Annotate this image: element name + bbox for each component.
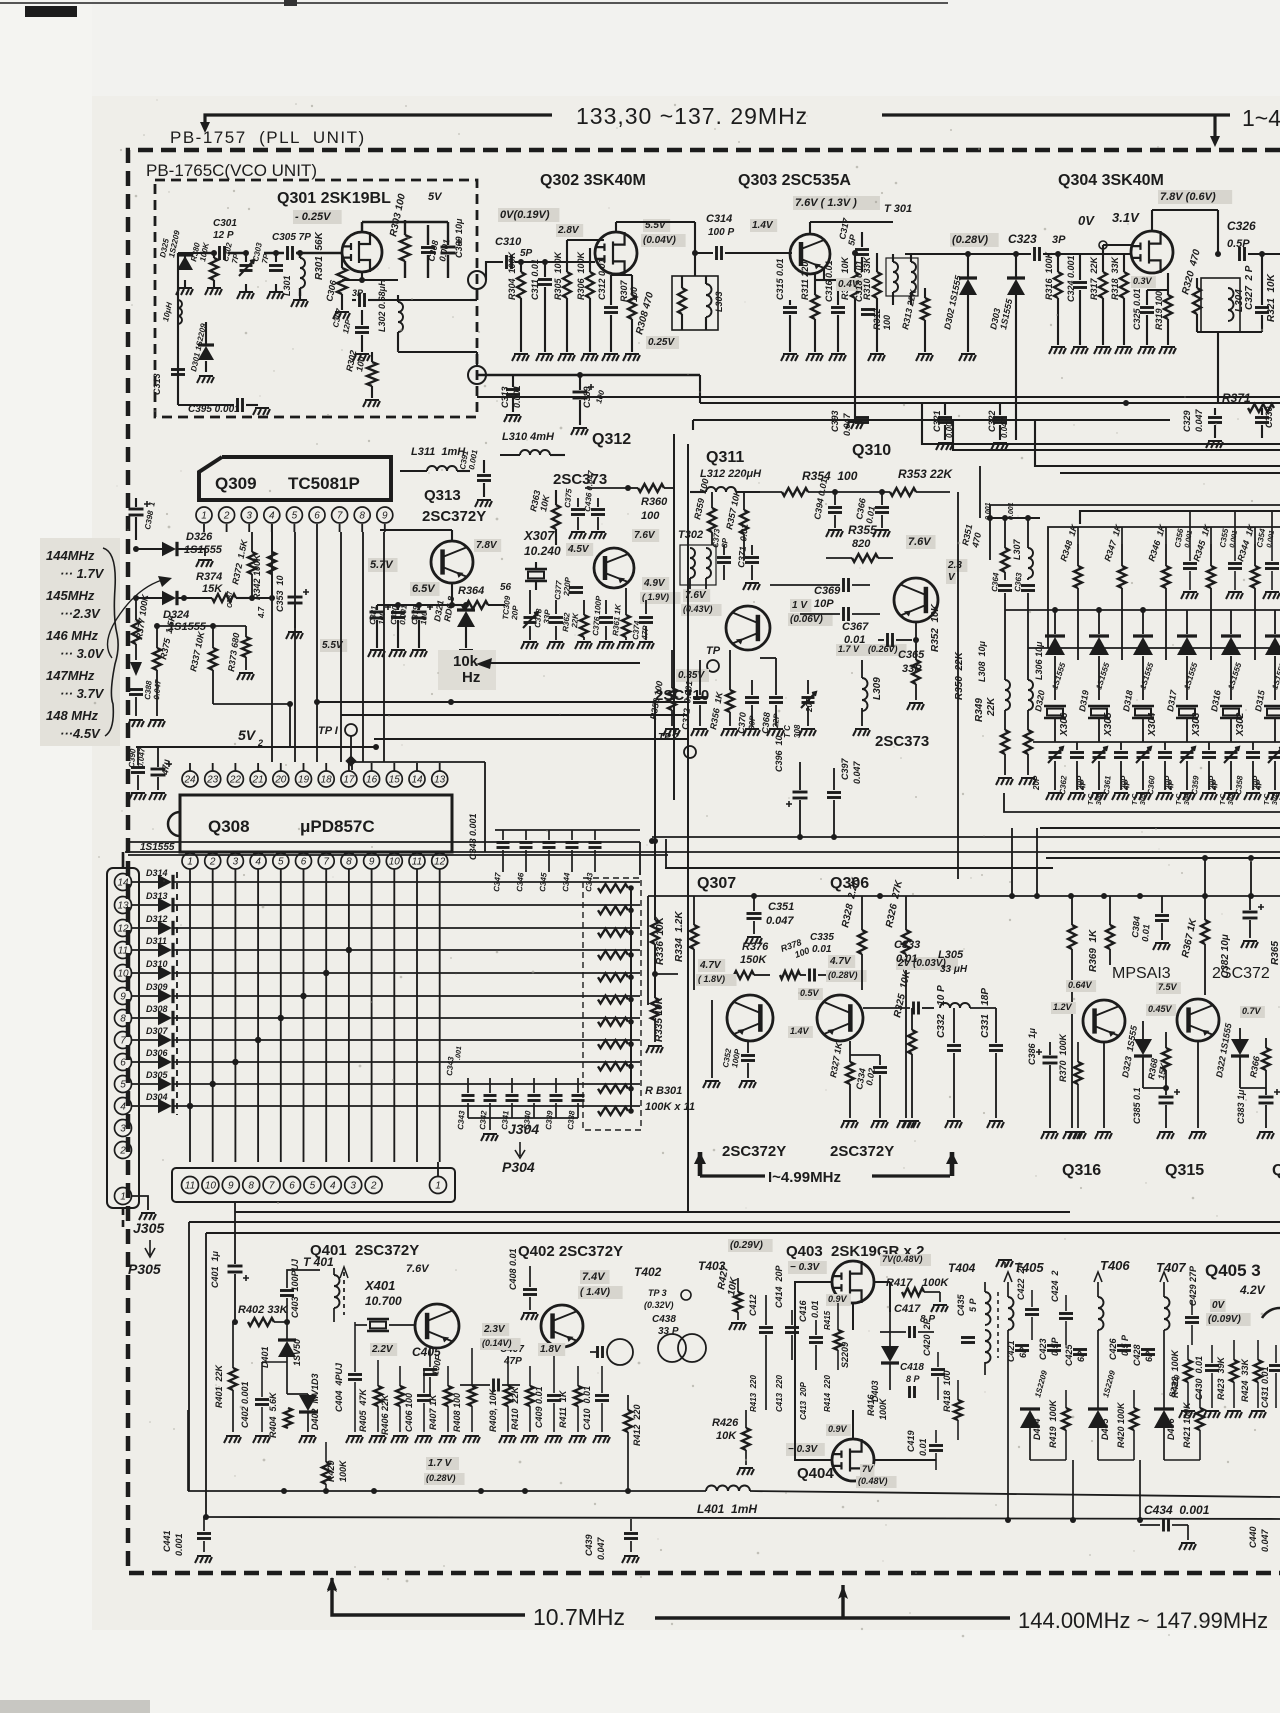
wire q309 pin5 long right (294, 535, 296, 537)
svg-text:T 401: T 401 (303, 1255, 334, 1269)
svg-text:T C: T C (783, 725, 792, 738)
svg-text:7.5V: 7.5V (1158, 982, 1178, 992)
svg-text:0V: 0V (1212, 1300, 1226, 1311)
svg-text:0.64V: 0.64V (1068, 980, 1093, 990)
transistor Q306 circle (817, 995, 863, 1041)
svg-text:C343: C343 (456, 1110, 467, 1130)
voltage (0.29V) (728, 1239, 773, 1252)
svg-text:1.2V: 1.2V (1053, 1002, 1073, 1012)
svg-text:47P: 47P (503, 1356, 522, 1367)
svg-text:C423: C423 (1038, 1338, 1048, 1360)
svg-text:7.8V: 7.8V (476, 540, 498, 551)
svg-text:R311 220: R311 220 (800, 262, 810, 300)
svg-text:4.2V: 4.2V (1239, 1283, 1266, 1297)
transistor Q402 circle (541, 1305, 583, 1347)
svg-text:0.01: 0.01 (1140, 924, 1151, 942)
svg-text:C327 2 P: C327 2 P (1244, 265, 1255, 310)
svg-text:7: 7 (269, 1181, 275, 1192)
svg-text:C409 0.01: C409 0.01 (534, 1386, 544, 1428)
wire xtal bank bus stubs (1077, 527, 1079, 544)
bottom arrow 10.7MHz (332, 1578, 525, 1615)
svg-text:C414 20P: C414 20P (774, 1264, 784, 1308)
voltage label -0.25V (293, 210, 342, 224)
svg-text:R307: R307 (619, 279, 629, 302)
transformer T407 coil (1164, 1297, 1170, 1330)
svg-text:C314: C314 (706, 213, 732, 225)
wire bus y780 (667, 779, 669, 781)
svg-text:5 P: 5 P (968, 1297, 978, 1312)
svg-text:1: 1 (435, 1181, 441, 1192)
svg-text:C332 10 P: C332 10 P (936, 985, 947, 1038)
transistor Q401 circle (415, 1304, 459, 1348)
transistor Q311 circle 2SC710 (726, 606, 770, 650)
svg-text:R409, 10K: R409, 10K (488, 1387, 498, 1432)
voltage 7V(0.48V) (880, 1254, 931, 1266)
voltage 4.7V (0.28V) (828, 955, 855, 968)
svg-text:C326: C326 (1227, 219, 1256, 233)
wire Q313 collector (451, 530, 453, 541)
svg-text:100K: 100K (338, 1459, 348, 1482)
svg-text:100K: 100K (922, 1277, 949, 1289)
svg-text:Q312: Q312 (592, 431, 631, 448)
svg-text:D326: D326 (186, 531, 213, 543)
svg-text:11: 11 (118, 946, 128, 957)
svg-text:···4.5V: ···4.5V (60, 726, 101, 741)
svg-text:150K: 150K (740, 954, 767, 966)
svg-text:R304 100K: R304 100K (507, 250, 517, 300)
transformer T402 tank (607, 1339, 633, 1365)
arrow up right 2SC372Y (950, 1152, 955, 1176)
svg-text:R319 100: R319 100 (1154, 291, 1164, 330)
J304 pins (182, 1177, 199, 1194)
svg-text:R360: R360 (641, 496, 668, 508)
voltage 7.8V(0.6V) (1158, 190, 1232, 204)
bus rect top right outer (922, 403, 1280, 444)
svg-text:Q316: Q316 (1062, 1162, 1101, 1179)
wire Q303 collector to T301 (809, 222, 811, 234)
svg-text:L307: L307 (1012, 538, 1022, 560)
svg-text:X302: X302 (1235, 712, 1246, 737)
svg-text:2: 2 (119, 1146, 126, 1157)
svg-text:5: 5 (292, 511, 298, 522)
transformer T405 coil (1008, 1297, 1014, 1330)
svg-text:R365: R365 (1270, 941, 1280, 965)
svg-text:100: 100 (882, 315, 892, 330)
svg-text:C348 0.001: C348 0.001 (468, 813, 478, 860)
svg-text:X303: X303 (1191, 712, 1202, 737)
transistor Q312 circle (594, 548, 634, 588)
svg-text:D314: D314 (146, 868, 168, 878)
svg-text:C434 0.001: C434 0.001 (1144, 1503, 1210, 1517)
svg-text:I~4.99MHz: I~4.99MHz (768, 1169, 841, 1186)
voltage 0V(0.19V) (498, 208, 559, 222)
svg-text:R334 1.2K: R334 1.2K (674, 911, 685, 962)
svg-text:21: 21 (252, 775, 264, 786)
voltage -0.3V q404 (786, 1443, 825, 1456)
svg-text:(0.48V): (0.48V) (858, 1476, 888, 1486)
svg-text:R321 10K: R321 10K (1266, 273, 1277, 322)
transistor Q304 (1131, 231, 1173, 273)
svg-text:16: 16 (366, 775, 378, 786)
PLL unit dashed border (128, 150, 1280, 1573)
svg-text:10.7MHz: 10.7MHz (533, 1604, 625, 1630)
svg-text:C375: C375 (563, 488, 574, 508)
svg-text:( 1.8V): ( 1.8V) (698, 974, 725, 984)
ground row VCO (184, 280, 186, 288)
ground J305 pin1 (132, 1196, 148, 1210)
wire D323 to C385 (1143, 1087, 1166, 1089)
transistor Q315 circle (1177, 999, 1219, 1041)
svg-text:− 0.3V: − 0.3V (788, 1444, 819, 1455)
svg-text:T404: T404 (948, 1261, 976, 1275)
svg-text:R404 5.6K: R404 5.6K (268, 1391, 278, 1438)
svg-text:C413 20P: C413 20P (799, 1382, 808, 1420)
capacitor C359 4P (1202, 753, 1216, 758)
svg-text:6: 6 (301, 857, 307, 868)
wire Q306 top to bus (957, 874, 959, 876)
svg-text:7.6V: 7.6V (908, 536, 932, 548)
transistor Q301 (342, 232, 382, 272)
svg-text:C393: C393 (830, 410, 840, 432)
svg-text:12: 12 (117, 924, 129, 935)
svg-text:2.3: 2.3 (947, 560, 962, 571)
svg-text:1.7 V: 1.7 V (838, 644, 860, 654)
wire bottom rail 2 (206, 1517, 1280, 1519)
svg-text:C402 0.001: C402 0.001 (240, 1381, 250, 1428)
svg-text:1 V: 1 V (792, 600, 808, 611)
voltage 1V (0.06V) (790, 599, 811, 612)
capacitor C340 (528, 1096, 541, 1101)
svg-text:L310 4mH: L310 4mH (502, 431, 555, 443)
wire crystal bank top rail (1005, 609, 1280, 611)
svg-text:R353 22K: R353 22K (898, 467, 953, 481)
svg-text:μPD857C: μPD857C (300, 817, 375, 836)
voltage 4.5V (566, 543, 593, 556)
voltage 4.9V (1.9V) (642, 577, 669, 590)
wire Q302 drain to tank (615, 222, 617, 232)
svg-text:D311: D311 (146, 936, 167, 946)
voltage 0.9V b (826, 1424, 851, 1436)
voltage 0.5V (798, 988, 823, 1000)
capacitor C342 (484, 1096, 497, 1101)
svg-text:100K: 100K (878, 1397, 888, 1420)
svg-text:R410 22K: R410 22K (510, 1385, 520, 1430)
voltage 0.64V (1066, 980, 1096, 992)
svg-text:C404 4PUJ: C404 4PUJ (334, 1362, 344, 1412)
svg-text:R316 100K: R316 100K (1044, 250, 1054, 300)
wire long vertical x980 (979, 466, 981, 518)
svg-text:144.00MHz ~ 147.99MHz: 144.00MHz ~ 147.99MHz (1018, 1608, 1268, 1633)
svg-text:TP 3: TP 3 (648, 1288, 667, 1298)
svg-text:C426: C426 (1108, 1337, 1118, 1360)
svg-text:5V: 5V (238, 727, 257, 743)
svg-text:L302 0.68μH: L302 0.68μH (377, 279, 387, 332)
trimmer TC 20P (1137, 753, 1150, 758)
svg-text:302: 302 (1272, 793, 1279, 805)
wire left stem to rail (187, 1410, 189, 1491)
svg-text:C396 10: C396 10 (774, 735, 784, 772)
svg-text:PB-1765C(VCO UNIT): PB-1765C(VCO UNIT) (146, 161, 317, 180)
svg-text:C424 2: C424 2 (1050, 1270, 1060, 1302)
IC Q308 box (180, 795, 452, 852)
voltage 0V (0.09V) (1210, 1299, 1226, 1312)
wire bus y855 (128, 854, 668, 856)
svg-text:Q301 2SK19BL: Q301 2SK19BL (277, 190, 391, 207)
wire mid-page long horizontals y812-853 (1004, 793, 1280, 812)
svg-text:R370 100K: R370 100K (1058, 1032, 1068, 1082)
ground D301 (197, 376, 214, 383)
svg-text:C305 7P: C305 7P (272, 232, 311, 243)
voltage 2.2V (370, 1343, 397, 1356)
svg-text:R342 100K: R342 100K (252, 553, 262, 600)
crystal X302 (1220, 706, 1242, 718)
crystal X305 (1088, 706, 1110, 718)
svg-text:5V: 5V (428, 191, 443, 203)
svg-text:D312: D312 (146, 914, 168, 924)
voltage 1.7V (0.26V) (836, 644, 866, 656)
svg-text:0.01: 0.01 (810, 1300, 820, 1318)
svg-text:C338: C338 (566, 1110, 577, 1130)
svg-text:Q310: Q310 (852, 442, 891, 459)
transistor Q303 (790, 234, 830, 274)
wire header right segment with down arrow (882, 113, 1230, 116)
svg-text:5: 5 (278, 857, 284, 868)
svg-text:3: 3 (233, 857, 239, 868)
svg-text:D306: D306 (146, 1048, 169, 1058)
svg-text:24: 24 (183, 775, 196, 786)
voltage table brace (103, 548, 118, 736)
resistor R354 (782, 488, 808, 496)
svg-text:L308 10μ: L308 10μ (977, 640, 987, 682)
svg-text:C403 100PUJ: C403 100PUJ (290, 1258, 300, 1318)
svg-text:C383 1μ: C383 1μ (1236, 1089, 1246, 1124)
svg-text:100 P: 100 P (708, 227, 734, 238)
voltage 5.5V(0.04V) (643, 219, 670, 232)
svg-text:5: 5 (120, 1080, 126, 1091)
svg-text:4.7V: 4.7V (829, 956, 852, 967)
svg-text:10: 10 (205, 1181, 217, 1192)
svg-text:8: 8 (120, 1014, 126, 1025)
voltage 7.6V q312 (632, 529, 659, 542)
svg-text:(0.28V): (0.28V) (952, 234, 988, 246)
svg-text:2.8V: 2.8V (557, 225, 580, 236)
svg-text:12 P: 12 P (213, 230, 234, 241)
svg-text:··· 3.7V: ··· 3.7V (60, 686, 105, 701)
svg-text:0.047: 0.047 (596, 1536, 606, 1560)
svg-text:10.240: 10.240 (524, 544, 561, 558)
voltage 0.7V (1240, 1006, 1265, 1018)
bottom arrow 144MHz (655, 1616, 1010, 1619)
svg-text:8: 8 (346, 857, 352, 868)
svg-text:R349: R349 (974, 698, 985, 722)
svg-text:C435: C435 (956, 1293, 966, 1316)
svg-text:C438: C438 (652, 1314, 676, 1325)
svg-text:1.7 V: 1.7 V (428, 1458, 453, 1469)
svg-text:R301 56K: R301 56K (314, 231, 325, 280)
svg-text:4.7V: 4.7V (699, 960, 722, 971)
svg-text:6P: 6P (1018, 1346, 1028, 1358)
wire L304 bottom rail (1197, 331, 1262, 333)
svg-text:1.4V: 1.4V (790, 1026, 810, 1036)
Q308 pins top 24-13 (182, 771, 198, 787)
svg-text:T407: T407 (1156, 1260, 1186, 1275)
svg-text:R415: R415 (823, 1310, 832, 1330)
svg-text:7.6V ( 1.3V ): 7.6V ( 1.3V ) (795, 197, 857, 209)
svg-text:2: 2 (370, 1181, 377, 1192)
transistor Q405 partial (1262, 1308, 1280, 1350)
svg-text:1~4: 1~4 (1242, 105, 1280, 131)
voltage 5.5V q309 (320, 639, 347, 652)
wire R337 to 5V rail (212, 700, 214, 704)
svg-text:4: 4 (330, 1181, 336, 1192)
trimmer TC 20P (1093, 753, 1106, 758)
svg-text:Q: Q (1272, 1162, 1280, 1179)
svg-text:7: 7 (120, 1036, 126, 1047)
svg-text:T C: T C (1264, 793, 1271, 805)
svg-text:MPSAI3: MPSAI3 (1112, 965, 1171, 982)
svg-text:P305: P305 (128, 1261, 161, 1277)
svg-text:L306 10μ: L306 10μ (1034, 641, 1044, 680)
svg-text:3: 3 (120, 1124, 126, 1135)
svg-text:C318 0.01: C318 0.01 (854, 260, 864, 302)
svg-text:22: 22 (229, 775, 242, 786)
transformer T406 coil (1098, 1297, 1104, 1330)
diode D324 1S1555 (162, 591, 176, 605)
svg-text:X307: X307 (523, 528, 555, 543)
voltage 1.4V (750, 219, 777, 232)
voltage 2.3V (946, 559, 967, 572)
svg-text:Q311: Q311 (706, 449, 744, 466)
svg-text:3.1V: 3.1V (1112, 210, 1140, 225)
voltage 7.6V (0.43V) (683, 589, 710, 602)
svg-text:R424 33K: R424 33K (1240, 1357, 1250, 1402)
wire vco to node (470, 299, 477, 301)
crystal X301 (1264, 706, 1280, 718)
svg-text:11: 11 (412, 857, 422, 868)
bus wire y505 crystal top (990, 505, 1280, 560)
svg-text:C440: C440 (1248, 1526, 1258, 1548)
svg-text:(0.09V): (0.09V) (1208, 1314, 1241, 1325)
svg-text:C367: C367 (842, 621, 869, 633)
svg-text:D305: D305 (146, 1070, 169, 1080)
svg-text:TP: TP (706, 645, 721, 657)
transistor Q302 (595, 232, 637, 274)
capacitor C343 (462, 1096, 475, 1101)
voltage 1.8V (538, 1343, 565, 1356)
wire q309 pin9 to right (383, 532, 385, 540)
transistor Q307 circle (727, 995, 773, 1041)
svg-text:.001: .001 (455, 1046, 463, 1060)
svg-text:Q402 2SC372Y: Q402 2SC372Y (518, 1243, 623, 1260)
resistor R353 (890, 488, 916, 496)
svg-text:C365: C365 (898, 649, 925, 661)
svg-text:T C: T C (1132, 793, 1139, 805)
svg-text:C387: C387 (227, 590, 234, 608)
wire R429 vertical (325, 1432, 327, 1491)
svg-text:C408 0.01: C408 0.01 (508, 1248, 518, 1290)
svg-text:7V: 7V (862, 1464, 874, 1474)
svg-text:R354 100: R354 100 (802, 469, 858, 483)
J305 pins (115, 874, 132, 891)
svg-text:Q309: Q309 (215, 474, 257, 493)
wire 5V rail (136, 746, 376, 748)
wire cap row rail (468, 1117, 578, 1119)
svg-text:Q405 3: Q405 3 (1205, 1261, 1261, 1280)
ground Q315 emitter (1197, 1041, 1199, 1128)
svg-text:C406 100: C406 100 (404, 1393, 414, 1432)
svg-text:C422 2P: C422 2P (1016, 1261, 1026, 1300)
svg-text:4P: 4P (1254, 779, 1264, 791)
svg-text:6P: 6P (1076, 1350, 1086, 1362)
Q308 pins bottom 1-12 (182, 853, 198, 869)
svg-text:C333: C333 (894, 939, 920, 951)
voltage 7.6V(1.3V) (793, 196, 880, 210)
wire bottom D-col rail (1030, 1459, 1066, 1461)
svg-text:T406: T406 (1100, 1258, 1130, 1273)
svg-text:2SC373: 2SC373 (553, 471, 607, 488)
svg-text:R416: R416 (866, 1393, 876, 1416)
svg-text:L401 1mH: L401 1mH (697, 1502, 757, 1516)
svg-text:9: 9 (369, 857, 375, 868)
wire Q303 emitter (823, 268, 825, 280)
svg-text:R312: R312 (872, 308, 882, 330)
bus wire y420 (693, 419, 1170, 421)
svg-text:C441: C441 (162, 1530, 172, 1552)
voltage 7.4V (1.4V) shaded (580, 1270, 610, 1284)
svg-text:(0.14V): (0.14V) (482, 1338, 512, 1348)
svg-text:8 P: 8 P (906, 1374, 921, 1384)
diode D404 1S2209 (1020, 1410, 1040, 1428)
scan artifacts top edge (0, 2, 948, 4)
svg-text:R406 22K: R406 22K (380, 1393, 390, 1435)
svg-text:4P: 4P (1166, 779, 1176, 791)
capacitor C360 4P (1158, 753, 1172, 758)
svg-text:(0.04V): (0.04V) (643, 235, 676, 246)
svg-text:10: 10 (389, 857, 401, 868)
svg-text:R402 33K: R402 33K (238, 1304, 289, 1316)
svg-text:C421: C421 (1006, 1340, 1016, 1362)
svg-text:9: 9 (382, 511, 388, 522)
svg-text:0.25V: 0.25V (648, 337, 675, 348)
svg-text:10k: 10k (453, 653, 479, 670)
svg-text:C339: C339 (544, 1110, 555, 1130)
svg-text:9: 9 (120, 992, 126, 1003)
svg-text:C430 0.01: C430 0.01 (1194, 1356, 1204, 1400)
svg-text:C369: C369 (814, 585, 841, 597)
wire long vertical x958 (957, 492, 959, 879)
svg-text:R426: R426 (712, 1417, 739, 1429)
capacitor C339 (550, 1096, 563, 1101)
svg-text:20P: 20P (1032, 775, 1041, 791)
svg-text:··· 3.0V: ··· 3.0V (60, 646, 105, 661)
wire bus y702 y715 y739 (317, 701, 688, 703)
ground R375 (148, 720, 165, 727)
svg-text:R411 1K: R411 1K (558, 1389, 568, 1428)
svg-text:10P: 10P (814, 598, 834, 610)
svg-text:0.35V: 0.35V (678, 670, 705, 681)
svg-text:(0.29V): (0.29V) (730, 1240, 763, 1251)
svg-text:1: 1 (201, 511, 207, 522)
svg-text:TP I: TP I (318, 725, 339, 737)
svg-text:820: 820 (852, 538, 871, 550)
svg-text:0V: 0V (1078, 213, 1095, 228)
transformer T403 double circle (658, 1334, 686, 1362)
svg-text:C425: C425 (1064, 1343, 1074, 1366)
wire q309 pin2 elbow (227, 532, 250, 560)
svg-text:C342: C342 (478, 1110, 489, 1130)
svg-text:20: 20 (274, 775, 287, 786)
capacitor C361 4P (1114, 753, 1128, 758)
